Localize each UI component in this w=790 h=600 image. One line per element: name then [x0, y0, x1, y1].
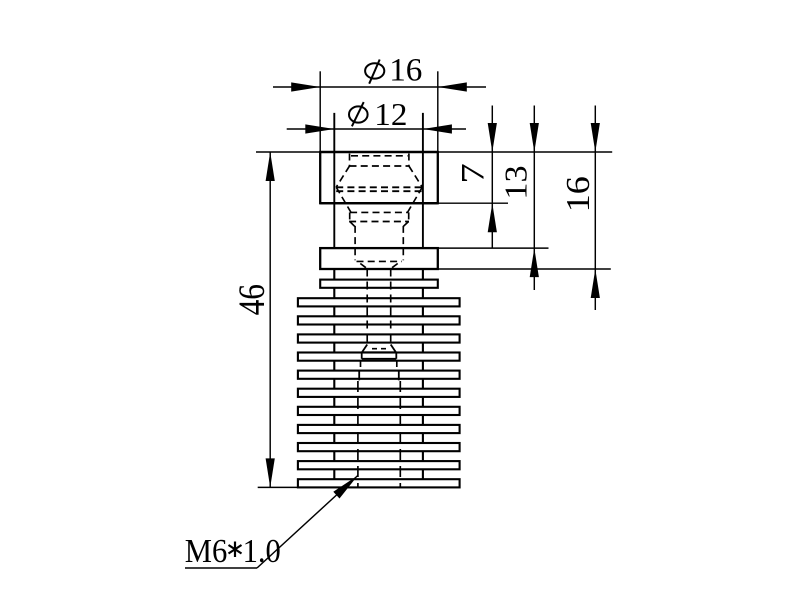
- hidden bore: M6 thread verticals: [358, 381, 400, 487]
- hidden bore: cone to filament bore: [360, 264, 397, 269]
- shoulder line + extension (dim 7): [320, 202, 508, 204]
- bottom face extension (dim 46): [258, 486, 298, 488]
- bell flare (thread entry): [362, 345, 397, 359]
- leader M6*1.0: [185, 476, 358, 570]
- svg-text:13: 13: [498, 165, 534, 199]
- dimension 46: [232, 152, 275, 487]
- hidden bore: top recess verticals: [350, 154, 409, 167]
- hidden bore: filament bore verticals: [367, 269, 391, 345]
- fin 5: [298, 353, 460, 361]
- flange disc: [320, 248, 438, 269]
- fin 8: [298, 407, 460, 415]
- hidden bore: coupler bore verticals through flange: [355, 226, 403, 262]
- hidden bore: contracting taper: [336, 187, 422, 212]
- dimension Ø12: [287, 98, 466, 134]
- fin 7: [298, 389, 460, 397]
- neck Ø12 section sides (also Ø12 extension lines): [334, 113, 423, 248]
- fin 12: [298, 479, 460, 487]
- svg-text:M6: M6: [185, 532, 227, 570]
- dimension Ø16: [273, 53, 486, 152]
- svg-text:16: 16: [559, 176, 597, 212]
- heatsink top barrel (Ø16 groove-mount section): [320, 152, 438, 203]
- hidden bore: chamfer to coupler bore: [350, 222, 409, 227]
- fin 10: [298, 443, 460, 451]
- hidden bore: top recess horizontals: [350, 156, 409, 166]
- flange bottom extension (dim 16): [438, 268, 611, 270]
- dimension 7: [455, 106, 497, 249]
- fin 3: [298, 316, 460, 324]
- hidden bore: widest groove horizontals: [336, 187, 422, 191]
- svg-text:12: 12: [374, 98, 407, 133]
- dimension 13: [498, 106, 539, 291]
- fin 4: [298, 334, 460, 342]
- svg-text:46: 46: [232, 284, 273, 315]
- fin 2: [298, 298, 460, 306]
- flange top extension (dim 13): [438, 247, 549, 249]
- svg-text:1.0: 1.0: [243, 532, 281, 570]
- top face line with extensions for dims 46/7/13/16: [256, 151, 612, 153]
- fin 9: [298, 425, 460, 433]
- fin 11: [298, 461, 460, 469]
- svg-text:7: 7: [455, 163, 491, 184]
- hidden bore: Ø8 section: [349, 212, 409, 221]
- fin core columns: [334, 269, 423, 481]
- dimension 16 (right): [559, 106, 600, 311]
- fin 6: [298, 371, 460, 379]
- hidden bore: expanding taper: [336, 166, 422, 187]
- hidden bore: thread relief steps: [359, 362, 399, 381]
- svg-text:16: 16: [389, 53, 422, 89]
- narrow top fin: [320, 280, 438, 288]
